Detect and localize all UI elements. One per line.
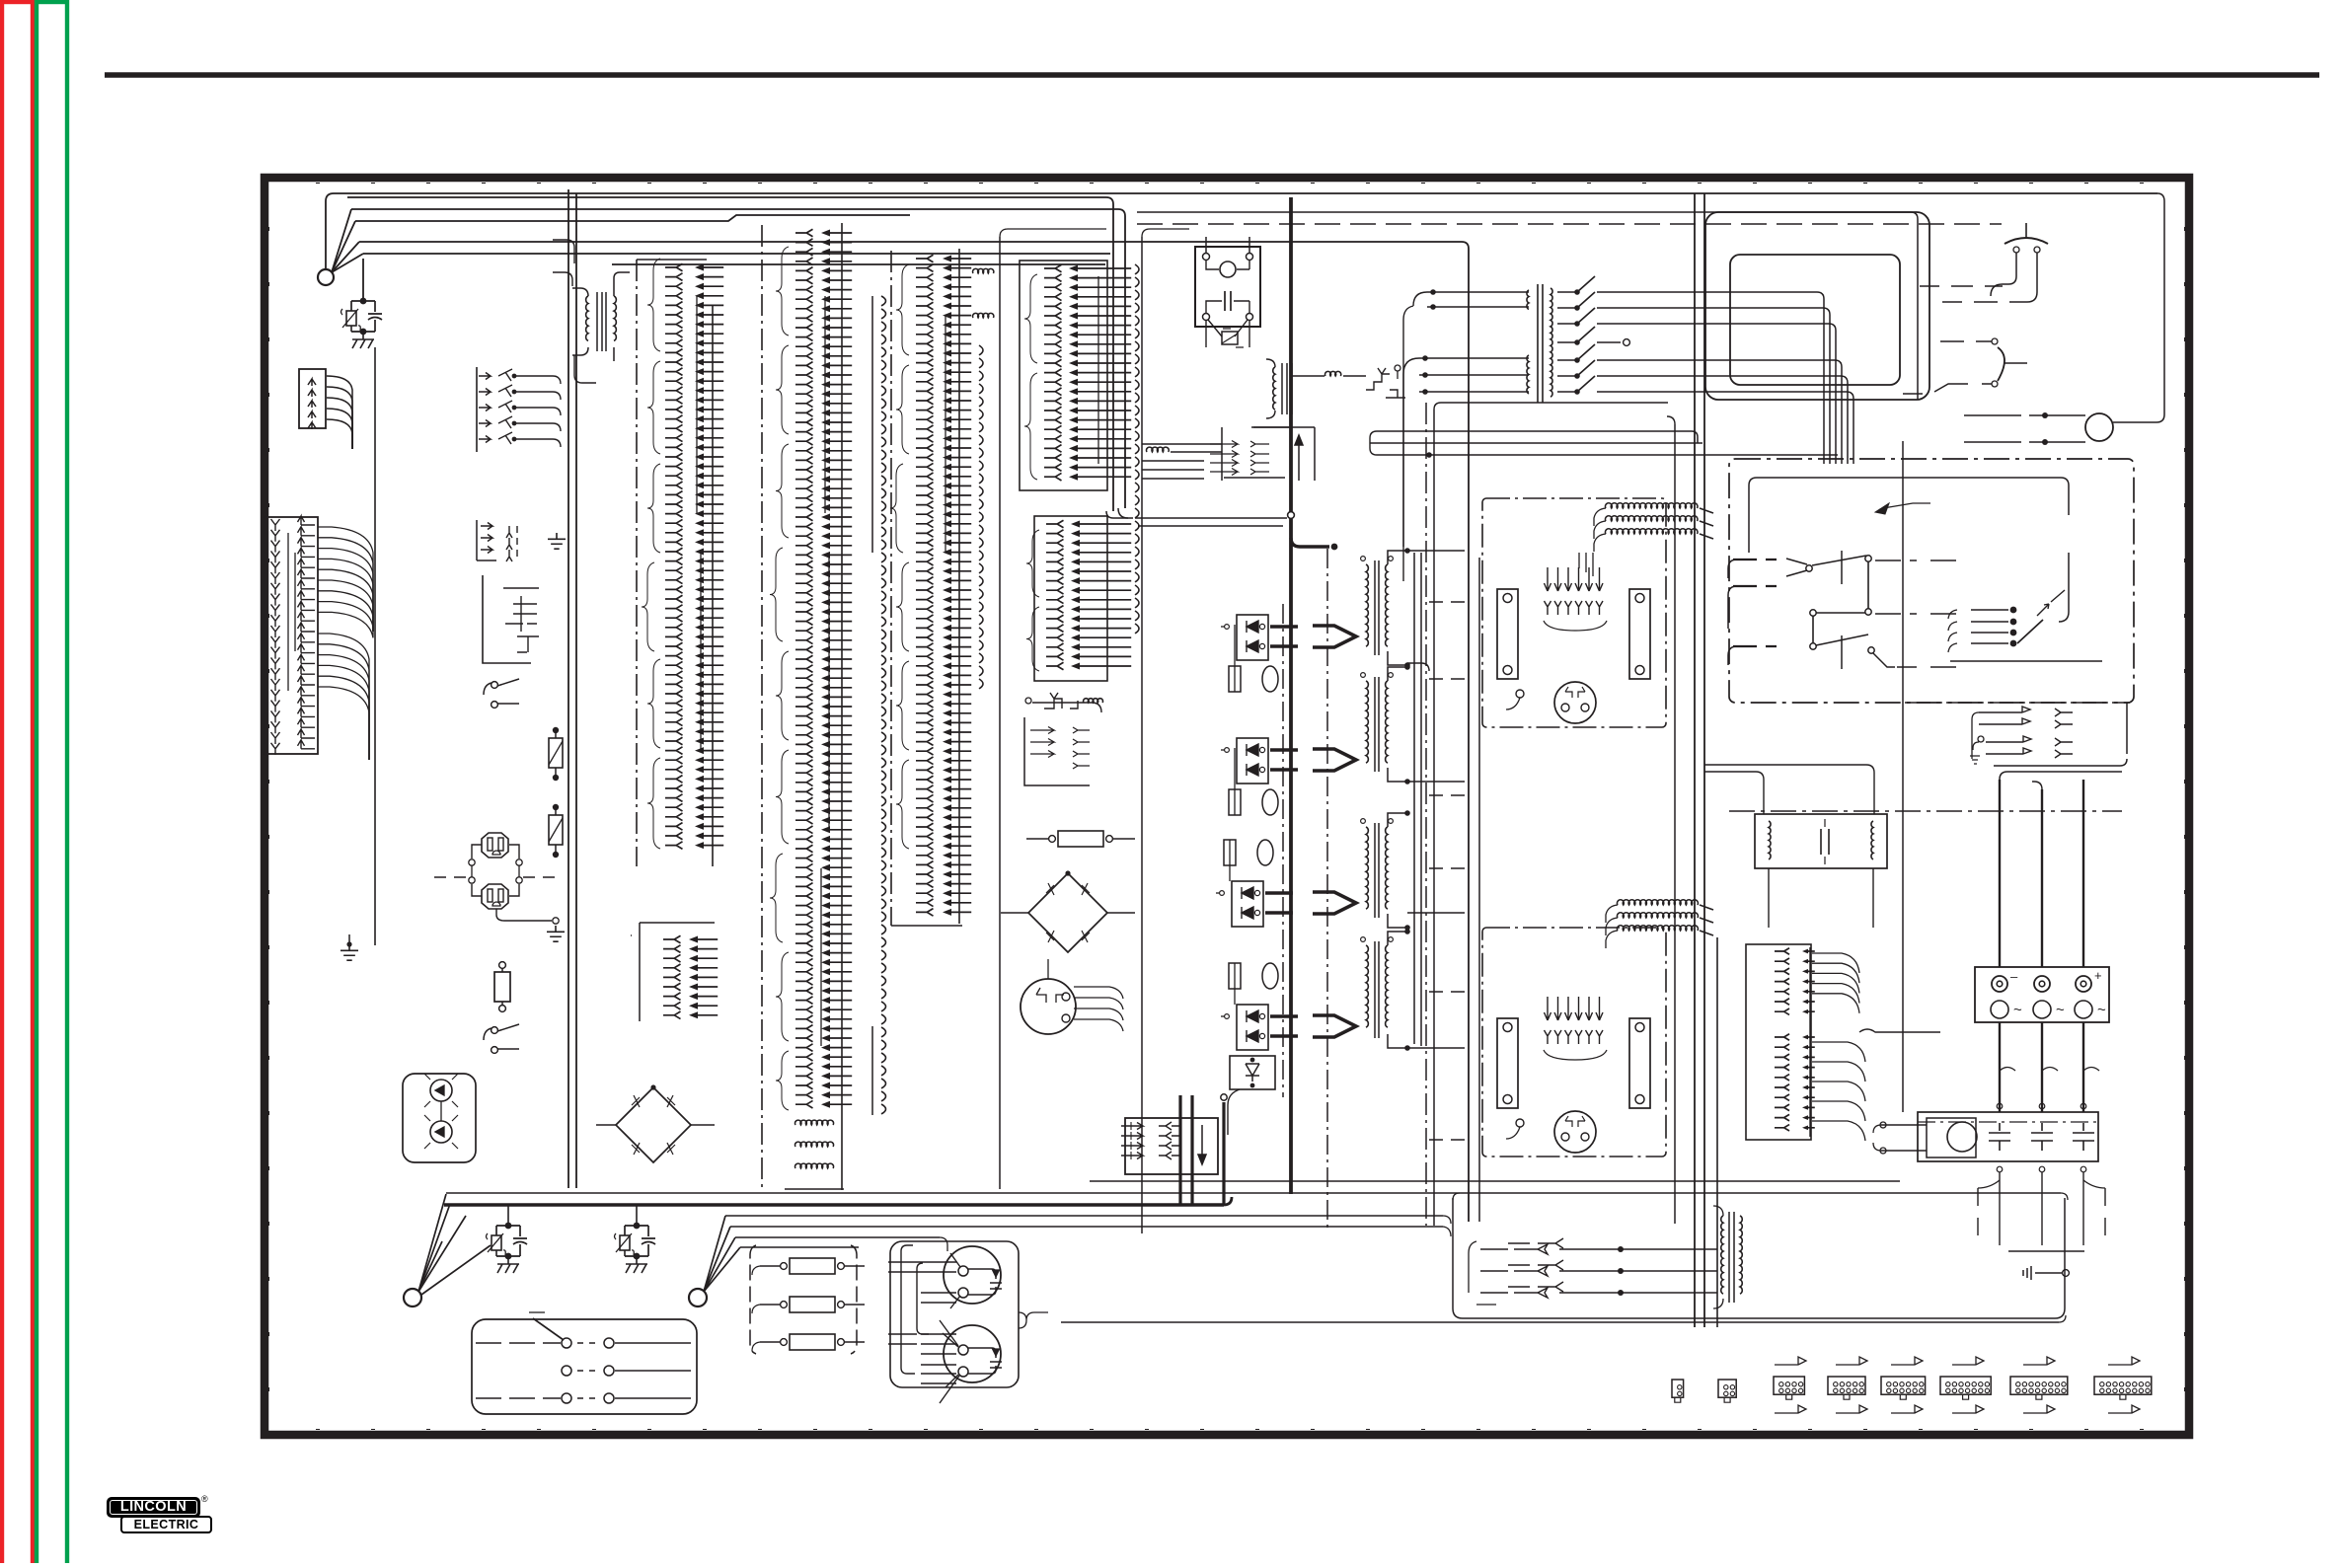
range switch contacts	[1728, 551, 1960, 669]
resistor R3	[494, 962, 510, 1012]
pilot lights D1 D2	[403, 1074, 476, 1162]
annotation arrow A1	[1875, 503, 1930, 514]
wire to MOV	[362, 259, 364, 301]
switch block SW-A	[477, 367, 561, 452]
node B fan	[418, 1194, 491, 1295]
double vertical bus right	[1695, 193, 1717, 1327]
capacitor lower wires	[1978, 1166, 2105, 1251]
bridge rectifier BR1	[596, 1084, 715, 1162]
MOV module M2	[487, 1205, 528, 1273]
wire curve bundle strip 2 right	[872, 296, 886, 1115]
green margin stripe	[37, 2, 67, 1568]
ground g2	[547, 926, 565, 941]
round connector RCN2	[921, 1320, 1002, 1403]
range switch box dash-dot	[1729, 459, 2134, 703]
output loop rectangle outer	[1705, 212, 1929, 400]
node A (input stud)	[318, 269, 334, 285]
zener block Z1	[1228, 1056, 1275, 1135]
connector ladder strip 1	[637, 259, 723, 866]
frame tick marks	[269, 184, 2185, 1430]
frame ground	[2023, 1266, 2069, 1280]
connector ladder strip 4 lower	[1026, 516, 1131, 681]
aux arrows YY right	[1970, 707, 2073, 764]
MOV module M3	[615, 1205, 656, 1273]
red margin stripe	[2, 2, 33, 1568]
right riser wires	[1000, 229, 1189, 1233]
resistor bank RB	[750, 1245, 865, 1354]
current arrow up	[1253, 427, 1315, 481]
SCR channel 3	[1216, 840, 1293, 927]
connector block J-A	[299, 369, 352, 449]
relay contact block RC	[472, 1312, 697, 1414]
firing channels	[1282, 604, 1284, 1097]
svg-text:~: ~	[2056, 1002, 2065, 1018]
bridge rectifier BR2	[1001, 870, 1135, 952]
riser wires around PCBs	[1414, 403, 1675, 1226]
svg-text:–: –	[2010, 969, 2018, 984]
connector ladder strip 3	[890, 249, 971, 926]
pulse block PB1	[1121, 1094, 1227, 1206]
MOV capacitor module M1	[341, 298, 383, 348]
mid horizontal wires	[1135, 518, 1287, 526]
fan motor box	[1873, 1112, 2098, 1161]
Lincoln Electric logo	[107, 1497, 200, 1518]
TRB2 feed wires	[1704, 765, 1874, 928]
vertical wire pair into middle	[1106, 508, 1133, 518]
main thick bus	[1288, 197, 1338, 1194]
control box C1	[483, 575, 539, 663]
wires right top	[1137, 212, 2002, 400]
capacitors C1 C2 C3	[1989, 1123, 2094, 1151]
top bus wires	[326, 193, 2157, 1222]
terminal feed wires	[1994, 703, 2127, 967]
SCR channel 1	[1221, 615, 1298, 692]
transformer T0	[553, 240, 630, 383]
switch S2	[484, 1024, 519, 1053]
switch S1	[484, 679, 519, 708]
work clamp	[1903, 338, 2027, 394]
transformer T1 three-bar	[1266, 359, 1292, 418]
stepped switch SW-T	[1366, 365, 1405, 398]
receptacle P2	[434, 865, 559, 924]
LB1 out wires	[1812, 953, 1940, 1141]
wire fan right of J-B	[318, 527, 373, 760]
channel interconnect wires	[1327, 549, 1473, 1228]
switch block SW-B	[477, 520, 517, 561]
motor feed riser	[1902, 441, 1904, 1112]
tall connector J-B	[265, 516, 318, 755]
bottom connector row	[1672, 1357, 2152, 1413]
thermostat R2	[549, 804, 563, 858]
drive transformer DT3	[1361, 810, 1410, 931]
svg-text:+: +	[2094, 968, 2102, 983]
round connector RCN1	[921, 1246, 1002, 1308]
svg-text:~: ~	[2097, 1002, 2106, 1018]
wire curve bundle strip 4 right	[1135, 264, 1139, 634]
hall connector CC3	[1021, 959, 1900, 1181]
inductor L1	[1142, 444, 1222, 479]
arrow block YB	[1024, 698, 1101, 785]
top rule	[105, 72, 2319, 78]
drive transformer DT1	[1361, 548, 1410, 668]
svg-text:~: ~	[2013, 1002, 2022, 1018]
MT primary feed wires	[1403, 289, 1529, 581]
PCB board G3750 lower	[1482, 928, 1666, 1157]
SCR channel 2	[1221, 738, 1298, 815]
bottom right wire loop	[1453, 1193, 2065, 1318]
thermostat R1	[549, 727, 563, 781]
electrode holder	[1920, 223, 2048, 302]
shunt resistor RH	[1026, 831, 1135, 847]
dash-dot lower boundary	[1729, 703, 2130, 811]
diagram frame	[265, 178, 2189, 1435]
main transformer MT	[1527, 284, 1552, 403]
ground g3	[340, 934, 358, 960]
coil bundle CR1	[1579, 503, 1713, 576]
node C stud	[689, 1289, 707, 1307]
connector housing box	[890, 1241, 1048, 1387]
connector ladder strip 4 upper	[1020, 261, 1131, 490]
output loop rectangle inner	[1730, 255, 1900, 385]
rotary selector	[1948, 590, 2065, 652]
wire loops below MT	[1370, 431, 1838, 458]
connector ladder strip 1b	[631, 923, 718, 1021]
connector ladder strip 2	[762, 223, 852, 1192]
latch relay icon under strip4	[1044, 693, 1102, 709]
ground g1	[548, 533, 566, 549]
drive transformer DT2	[1361, 664, 1410, 784]
drive transformer DT4	[1361, 929, 1410, 1051]
control transformer TRB2	[1755, 814, 1887, 868]
connector harness loops	[888, 1245, 929, 1374]
left vertical bus pair	[375, 189, 576, 1188]
node B stud	[404, 1289, 421, 1307]
coil bundle CR2	[1606, 900, 1713, 948]
bus branch with inductor	[1291, 371, 1366, 376]
pilot lamp	[1964, 193, 2164, 445]
relay K1	[1195, 237, 1260, 347]
thick chevron merges	[1313, 626, 1356, 1037]
MT secondary taps	[1557, 276, 1853, 464]
inductor pair top strip 3	[973, 268, 994, 688]
arrow block AB1	[1210, 427, 1289, 481]
ladder block LB1	[1746, 944, 1815, 1140]
bottom bus wires	[444, 1193, 2068, 1322]
SCR channel 4	[1221, 963, 1298, 1050]
transformer TR-B bottom	[1713, 1206, 1742, 1308]
node C fan	[704, 1216, 740, 1292]
receptacle P1	[469, 833, 522, 865]
feedback arrows left of TR-B	[1469, 1238, 1717, 1305]
wire fan from node A	[332, 209, 363, 272]
terminal down wires	[1997, 1022, 2099, 1112]
output terminal block TB	[1975, 967, 2109, 1022]
PCB board G3750 upper	[1482, 498, 1666, 727]
